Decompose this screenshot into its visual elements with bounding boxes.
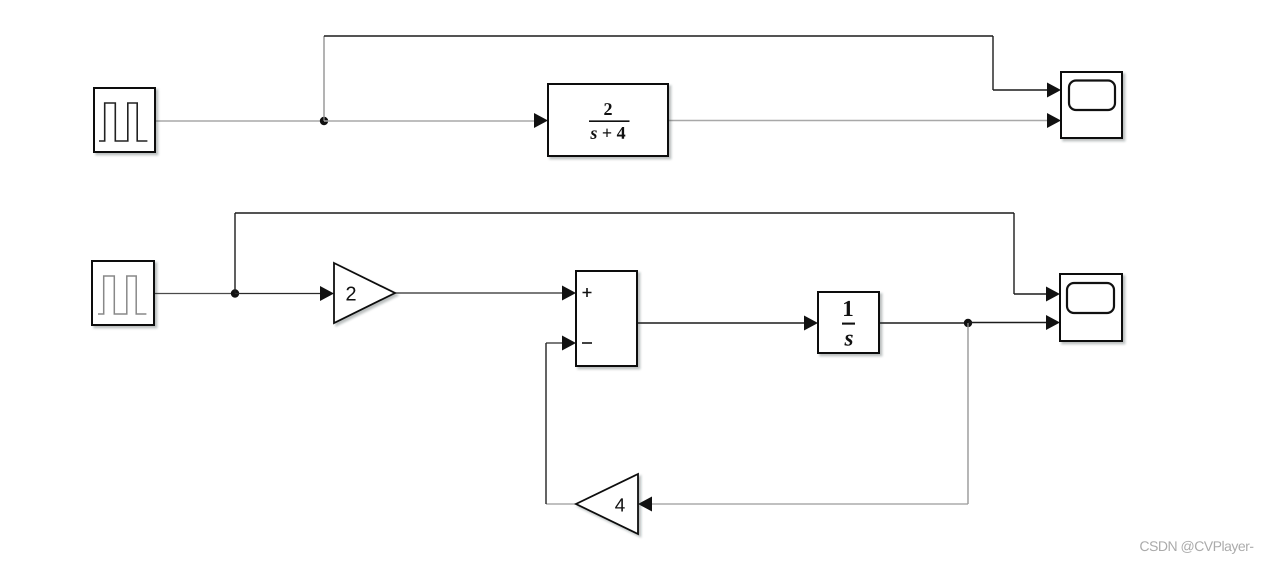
wire: Pulse Generator1 output to junction (top circuit): [155, 120, 324, 122]
wire: junction to Transfer Fcn input: [324, 113, 548, 128]
sum block: Sum (+/-): [576, 271, 637, 366]
wire: junction into Scope1 input 2: [968, 315, 1060, 330]
node: branch junction bottom circuit: [231, 289, 239, 297]
node: branch junction top circuit: [320, 117, 328, 125]
wire: Integrator output to junction: [879, 322, 968, 324]
wire: feedback up to Sum minus input: [545, 343, 547, 504]
scope: Scope1 (bottom): [1060, 274, 1122, 341]
wire: top bypass horizontal run: [324, 35, 993, 37]
wire: junction up to bypass line: [323, 36, 325, 121]
wire: junction up to bottom bypass: [234, 213, 236, 294]
wire: junction to Gain 2 input: [235, 286, 334, 301]
wire: into Sum minus input: [546, 336, 576, 351]
wire: Pulse Generator2 output to junction (bottom circuit): [154, 293, 235, 295]
wire: Sum output to Integrator input: [637, 316, 818, 331]
wire: bypass down to Scope1 input 1: [1013, 213, 1015, 294]
wire: Gain 4 output leftward: [546, 503, 576, 505]
pulse generator: Pulse Generator (top): [94, 88, 155, 152]
transfer function block: 2/(s+4): [548, 84, 668, 156]
wire: feedback horizontal into Gain 4 input: [638, 497, 968, 512]
gain block: Gain 2: [334, 263, 395, 323]
node: integrator output junction: [964, 319, 972, 327]
wire: into Scope1 input 1: [1014, 287, 1060, 302]
integrator block: 1/s: [818, 292, 879, 353]
pulse generator: Pulse Generator2 (bottom): [92, 261, 154, 325]
wire: into Scope input 1: [993, 83, 1061, 98]
wire: junction down to feedback run: [967, 323, 969, 504]
scope: Scope (top): [1061, 72, 1122, 138]
wire: Gain 2 output to Sum plus input: [395, 286, 576, 301]
gain block: Gain 4 (feedback, left pointing): [576, 474, 638, 534]
wire: bottom bypass horizontal run: [235, 212, 1014, 214]
wire: Transfer Fcn output to Scope input 2: [668, 113, 1061, 128]
wire: bypass down to Scope input 1: [992, 36, 994, 90]
watermark: CSDN @CVPlayer-: [1140, 541, 1253, 554]
